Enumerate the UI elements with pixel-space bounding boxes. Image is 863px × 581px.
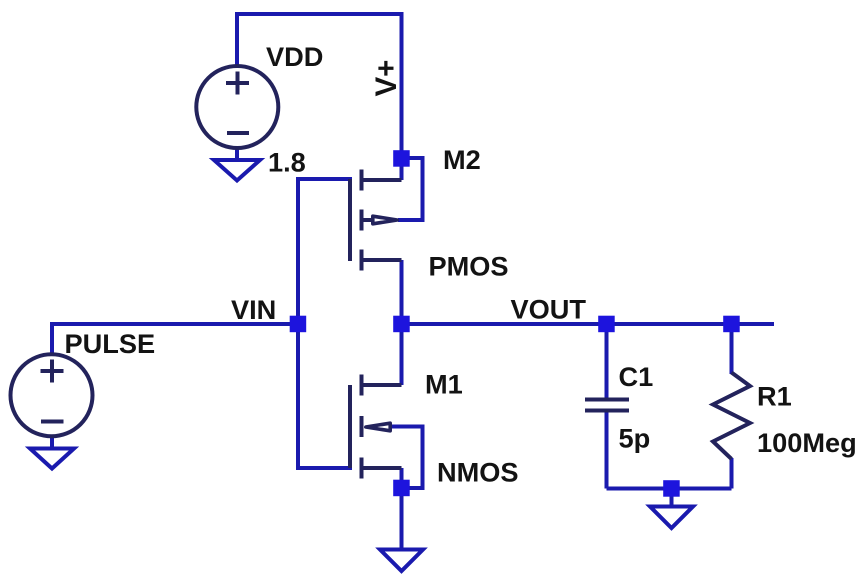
svg-text:100Meg: 100Meg (757, 427, 857, 458)
svg-text:PMOS: PMOS (429, 251, 509, 282)
svg-text:V+: V+ (370, 60, 403, 97)
svg-text:R1: R1 (757, 381, 792, 412)
svg-text:VIN: VIN (231, 294, 276, 325)
svg-text:1.8: 1.8 (268, 147, 306, 178)
svg-text:C1: C1 (619, 361, 654, 392)
svg-text:VOUT: VOUT (511, 294, 587, 325)
svg-text:PULSE: PULSE (65, 328, 156, 359)
svg-text:NMOS: NMOS (437, 457, 519, 488)
svg-text:5p: 5p (619, 423, 651, 454)
svg-text:VDD: VDD (266, 41, 323, 72)
svg-text:M2: M2 (443, 144, 481, 175)
svg-text:M1: M1 (425, 369, 463, 400)
